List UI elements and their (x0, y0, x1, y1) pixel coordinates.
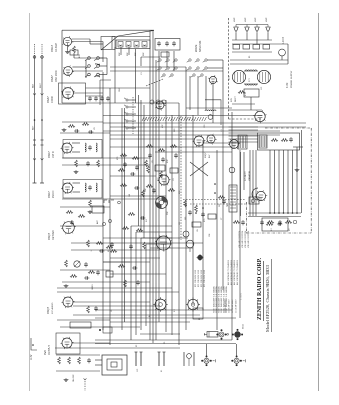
bus wire N (222, 60, 224, 290)
value label (108, 249, 110, 252)
bottom link coil bumps (245, 84, 257, 85)
electrolytic capacitor C22 (255, 25, 259, 34)
tube V9 6V6 output (61, 337, 74, 349)
notes text (201, 270, 203, 287)
notes text (239, 231, 241, 248)
tube V17 (228, 139, 240, 150)
capacitor C16 (70, 220, 74, 225)
tube V14 (155, 235, 172, 252)
resistor R27 (68, 357, 71, 364)
ground g3 (74, 170, 79, 174)
bus wire K (192, 115, 194, 305)
power transformer right winding (257, 70, 270, 83)
padder capacitor C6 (106, 96, 110, 101)
label 2ND IF (52, 190, 55, 198)
wire (240, 152, 242, 216)
svg-text:6SQ7: 6SQ7 (46, 306, 50, 314)
component box B3 (106, 271, 113, 277)
RF box top edge (62, 29, 154, 31)
value label (234, 17, 236, 22)
bracket glyph 1 (104, 200, 114, 203)
resistor R19 (96, 242, 103, 245)
antenna terminal 2 ring (41, 56, 44, 59)
svg-text:OSC: OSC (119, 87, 121, 92)
wire (111, 37, 113, 50)
svg-text:OUTPUT: OUTPUT (48, 345, 51, 355)
label 117V (30, 354, 33, 360)
label RECT b (235, 95, 237, 102)
wire (95, 309, 232, 311)
value label (143, 52, 145, 56)
V3 top wire (86, 87, 151, 89)
notes text (241, 293, 243, 300)
bus wire C2 (140, 100, 142, 232)
resistor R12 (68, 125, 75, 128)
chassis dashed border left (246, 202, 248, 233)
value label (209, 233, 211, 237)
coil L9 winding (135, 45, 138, 46)
label 41 (161, 369, 163, 372)
junction (274, 212, 276, 214)
junction (296, 212, 298, 214)
capacitor can 3 (158, 352, 161, 366)
RF box left lower edge (61, 56, 63, 103)
label 6V6 (43, 350, 47, 355)
resistor R45 (218, 196, 225, 199)
label BAND SW (199, 40, 202, 52)
value label (245, 91, 247, 96)
padder capacitor C3 (88, 96, 92, 101)
value label (167, 211, 169, 215)
ground g7 (295, 168, 300, 172)
capacitor C19 (84, 276, 89, 280)
label 115 (137, 368, 139, 372)
wire (146, 243, 172, 245)
capacitor C72 (260, 220, 264, 225)
lead label ANT (32, 125, 35, 130)
right stub bracket (293, 146, 303, 148)
svg-text:VOLUME CONTROL: VOLUME CONTROL (239, 231, 241, 248)
tube V4 small (208, 75, 218, 85)
padder capacitor C5 (100, 96, 104, 101)
value label (229, 76, 231, 80)
resistor R39 (118, 265, 125, 268)
svg-text:POWER SUPPLY: POWER SUPPLY (291, 70, 293, 88)
resistor R1 (73, 46, 76, 53)
junction (278, 212, 280, 214)
value label (119, 87, 121, 92)
speaker lead wire 4 (283, 150, 285, 213)
wire (90, 43, 103, 45)
notes text (220, 286, 223, 313)
coil L8 box (126, 42, 131, 48)
value label (111, 309, 113, 312)
wire (128, 127, 136, 129)
antenna arrow 1 (33, 93, 36, 95)
resistor R24 (70, 275, 77, 278)
wire (120, 47, 122, 55)
value label (199, 317, 201, 320)
terminal cluster (99, 327, 112, 333)
resistor R42 (281, 139, 288, 142)
parts list text (236, 299, 238, 313)
label 4172 (286, 82, 289, 88)
tube V12 (193, 135, 206, 147)
wire (135, 232, 137, 335)
svg-text:6SK7: 6SK7 (47, 191, 51, 198)
wire (110, 257, 160, 259)
small part cluster (184, 352, 194, 366)
V2 grid wire (72, 66, 86, 68)
label (209, 154, 211, 158)
value label (146, 116, 148, 120)
label 5Y3 (249, 78, 251, 82)
small circle part (229, 167, 235, 173)
resistor R15 (97, 160, 100, 167)
capacitor C18 (84, 262, 88, 267)
scale digit 1 (94, 63, 102, 67)
junction (202, 207, 204, 209)
tube base diagram 1 (216, 329, 226, 339)
notes text (242, 231, 244, 248)
title underline 1 (263, 261, 265, 321)
wire (110, 321, 190, 323)
wire (85, 60, 87, 78)
tube V8 6SQ7 1st audio (62, 296, 75, 308)
svg-text:WAVE: WAVE (194, 44, 198, 52)
wire (57, 319, 110, 321)
component box B2 (170, 168, 178, 173)
wire (140, 57, 142, 66)
svg-text:500: 500 (185, 217, 187, 220)
dashed wire a (183, 199, 246, 201)
label 6SK7 2 (47, 191, 51, 198)
svg-text:OSC MOD: OSC MOD (55, 70, 58, 82)
bus wire C (149, 31, 151, 340)
resistor R20 box (233, 45, 240, 50)
parts list text (225, 299, 227, 313)
svg-text:R21 22K OHM 1/2W: R21 22K OHM 1/2W (201, 270, 203, 287)
svg-text:1ST AUDIO: 1ST AUDIO (51, 302, 54, 314)
antenna arrow 4 (41, 158, 44, 160)
transformer top link (244, 70, 258, 72)
wire (72, 342, 110, 344)
notes text (223, 286, 226, 313)
IF transformer T1 box (63, 140, 102, 159)
cord node (32, 344, 34, 346)
trimmer C7 (157, 41, 161, 46)
wire (243, 152, 245, 190)
electrolytic capacitor C21 (245, 25, 249, 34)
switch3 contact 4 (124, 119, 128, 122)
junction (283, 212, 285, 214)
padder box (161, 52, 169, 57)
wire (73, 314, 200, 316)
wire (155, 151, 232, 153)
terminal circle (251, 199, 255, 203)
wire (141, 56, 160, 58)
component box B6 (192, 222, 201, 227)
svg-text:47K: 47K (79, 54, 81, 58)
capacitor C52 (174, 153, 178, 158)
svg-text:6SQ7: 6SQ7 (205, 152, 207, 158)
svg-text:6X5 RECT: 6X5 RECT (245, 171, 247, 181)
svg-text:BAND SW.: BAND SW. (199, 40, 202, 52)
wire (110, 175, 156, 177)
IF T2 secondary coil (96, 183, 97, 192)
junction (269, 212, 271, 214)
capacitor C51 (161, 157, 165, 162)
power cord bracket (31, 338, 37, 350)
power wire 4 (230, 59, 288, 61)
value label (221, 128, 223, 132)
socket lead (236, 344, 238, 356)
antenna arrow 3 (33, 158, 36, 160)
value label (164, 341, 166, 344)
wire (114, 47, 116, 103)
switch2 contact 5 (195, 67, 200, 70)
svg-text:2 - 4171: 2 - 4171 (241, 293, 243, 300)
speaker lead wire 5 (287, 150, 289, 213)
wire (56, 370, 100, 372)
resistor R32 (145, 160, 148, 167)
parts list text (229, 299, 231, 313)
value label (185, 217, 187, 220)
speaker lead wire 2 (274, 150, 276, 213)
label 6X5G (243, 324, 245, 329)
resistor R13 (82, 123, 89, 126)
value label (179, 190, 181, 194)
svg-text:3.2: 3.2 (271, 228, 273, 231)
label RF AMP (55, 43, 58, 52)
svg-text:ALL VOLTAGES TO CHASSIS: ALL VOLTAGES TO CHASSIS (230, 259, 233, 285)
wire (89, 39, 91, 44)
antenna terminal 1 ring (33, 56, 36, 59)
wire (73, 191, 81, 193)
capacitor C15 box (92, 206, 104, 213)
terminal box (262, 218, 288, 231)
wire (128, 113, 136, 115)
choke hatched can 2 (259, 135, 267, 148)
bus wire O (231, 112, 233, 340)
part circle (118, 201, 121, 204)
bus wire M (216, 150, 218, 330)
value label (197, 229, 199, 232)
label OUTPUT (48, 345, 51, 355)
band switch contact 5 (85, 73, 90, 77)
oscillator coil box (116, 40, 150, 49)
capacitor C23 (135, 165, 139, 170)
bus horizontal 1 (110, 66, 186, 68)
svg-text:BLK: BLK (33, 83, 35, 88)
speaker bus 2 (248, 216, 301, 218)
wire (103, 261, 130, 263)
resistor R72 (267, 221, 274, 224)
switch4 contact 7 (161, 74, 165, 77)
value label (221, 217, 223, 220)
value label (158, 177, 160, 181)
resistor R18 (78, 215, 85, 218)
value label (261, 86, 263, 90)
wire (60, 132, 110, 134)
switch3 contact 2 (124, 105, 128, 108)
notes text (198, 270, 200, 287)
switch2 contact 2 (195, 59, 200, 62)
wire (106, 58, 108, 75)
junction (287, 212, 289, 214)
wire (95, 343, 236, 345)
sheet left border (29, 13, 31, 391)
capacitor C20 (94, 306, 98, 311)
lead label BLK (33, 83, 35, 88)
wire (232, 103, 255, 105)
svg-text:C4 .05 MF 400V: C4 .05 MF 400V (225, 299, 227, 313)
svg-text:6V6: 6V6 (43, 350, 47, 355)
resistor R44 (233, 221, 240, 224)
wire (250, 97, 252, 110)
label 47K (79, 54, 81, 58)
horizontal coil (205, 110, 216, 111)
filter wire 6 (229, 141, 259, 143)
title model line (265, 264, 271, 332)
wire (203, 142, 240, 144)
V1 plate wire (72, 41, 103, 43)
V1 screen wire (72, 38, 90, 40)
wire (281, 56, 283, 60)
vibrator can (204, 332, 218, 338)
wire (110, 195, 166, 197)
terminal circle 2 (293, 220, 297, 224)
resistor R51 (158, 149, 165, 152)
electrolytic capacitor C20 (234, 25, 238, 34)
bus wire Q (121, 108, 123, 330)
capacitor can 1 (135, 352, 138, 366)
bus wire R (124, 108, 126, 322)
wire (128, 47, 130, 55)
wire (131, 225, 172, 227)
notes text (225, 286, 228, 313)
wire (95, 364, 102, 366)
pointer line 2 (118, 30, 154, 36)
coil box lower edge (100, 80, 111, 105)
oscillator trimmer box (155, 39, 180, 51)
svg-text:ANT: ANT (32, 125, 35, 130)
switch3 contact 3 (124, 112, 128, 115)
wire (130, 226, 132, 340)
wire (235, 33, 237, 40)
ground g1 (65, 50, 70, 54)
switch2 contact 8 (199, 74, 204, 77)
coil L9 box (134, 42, 139, 48)
capacitor C31 (277, 222, 282, 226)
wire (110, 273, 166, 275)
wire (110, 138, 195, 140)
wire (140, 238, 142, 330)
resistor R56 (168, 189, 175, 192)
label 6SG7 (50, 44, 54, 52)
bus horizontal 2 (110, 70, 223, 72)
label 6SA7 conv (46, 96, 50, 103)
resistor R36 (122, 227, 129, 230)
value label (145, 188, 147, 192)
value label (141, 71, 143, 75)
wire (128, 106, 136, 108)
tube V16 (255, 190, 267, 201)
socket lead (206, 344, 208, 356)
wire (189, 76, 191, 110)
tube V13 (158, 174, 171, 186)
wire (95, 359, 102, 361)
capacitor C32 (241, 220, 245, 225)
bus wire D (152, 31, 154, 343)
ground g6 (64, 378, 69, 382)
title underline 2 (271, 259, 273, 332)
value label (219, 204, 221, 207)
label ON-OFF (73, 374, 75, 382)
value label (136, 344, 138, 347)
label 6SA7 (50, 75, 54, 82)
resistor R29 (120, 154, 127, 157)
tube shield box V9 (56, 333, 80, 354)
tube V6 6SK7 2nd IF (61, 182, 74, 194)
svg-text:1ST IF: 1ST IF (52, 150, 55, 158)
bus wire E (155, 60, 157, 340)
diagonal wire 2 (190, 162, 208, 176)
wire (71, 249, 160, 251)
wire (56, 354, 100, 356)
svg-text:RECT: RECT (235, 95, 237, 102)
switch4 contact 2 (165, 59, 169, 62)
filter wire 2 (229, 129, 259, 131)
hatch band (142, 117, 206, 121)
power wire 1 (232, 39, 272, 41)
wire (62, 198, 166, 200)
contact circle a (102, 222, 105, 225)
value label (255, 17, 257, 22)
dashed shield line (180, 116, 182, 240)
capacitor C29 (136, 280, 140, 285)
wire (166, 51, 168, 67)
resistor R30 (132, 157, 139, 160)
resistor R43 (266, 223, 273, 226)
capacitor C33 (222, 199, 226, 204)
value label (149, 314, 151, 317)
label WAVE (194, 44, 198, 52)
bus wire A (102, 72, 104, 330)
speaker lead wire 7 (296, 150, 298, 213)
chassis dashed border bottom (246, 232, 311, 234)
svg-text:ALL VOLTAGES TO CHASSIS: ALL VOLTAGES TO CHASSIS (236, 259, 239, 285)
tube V1 6SG7 RF amp (63, 36, 74, 47)
speaker magnet inner (111, 362, 117, 367)
terminal strip box (70, 322, 91, 328)
coil L8 winding (127, 45, 130, 46)
label CONV (51, 96, 54, 103)
capacitor C71 (201, 212, 205, 217)
resistor R23 (65, 260, 68, 267)
resistor R20 (106, 246, 113, 249)
power wire 5 (230, 63, 288, 65)
coil L7 box (118, 42, 123, 48)
scale digit 2 (94, 75, 102, 79)
value label (135, 52, 137, 56)
bus wire H (171, 115, 173, 335)
capacitor C55 (110, 242, 114, 247)
svg-text:VOLUME CONTROL: VOLUME CONTROL (242, 231, 244, 248)
label OSC (55, 70, 58, 82)
wire (74, 57, 103, 59)
antenna terminal 2 (41, 56, 43, 58)
